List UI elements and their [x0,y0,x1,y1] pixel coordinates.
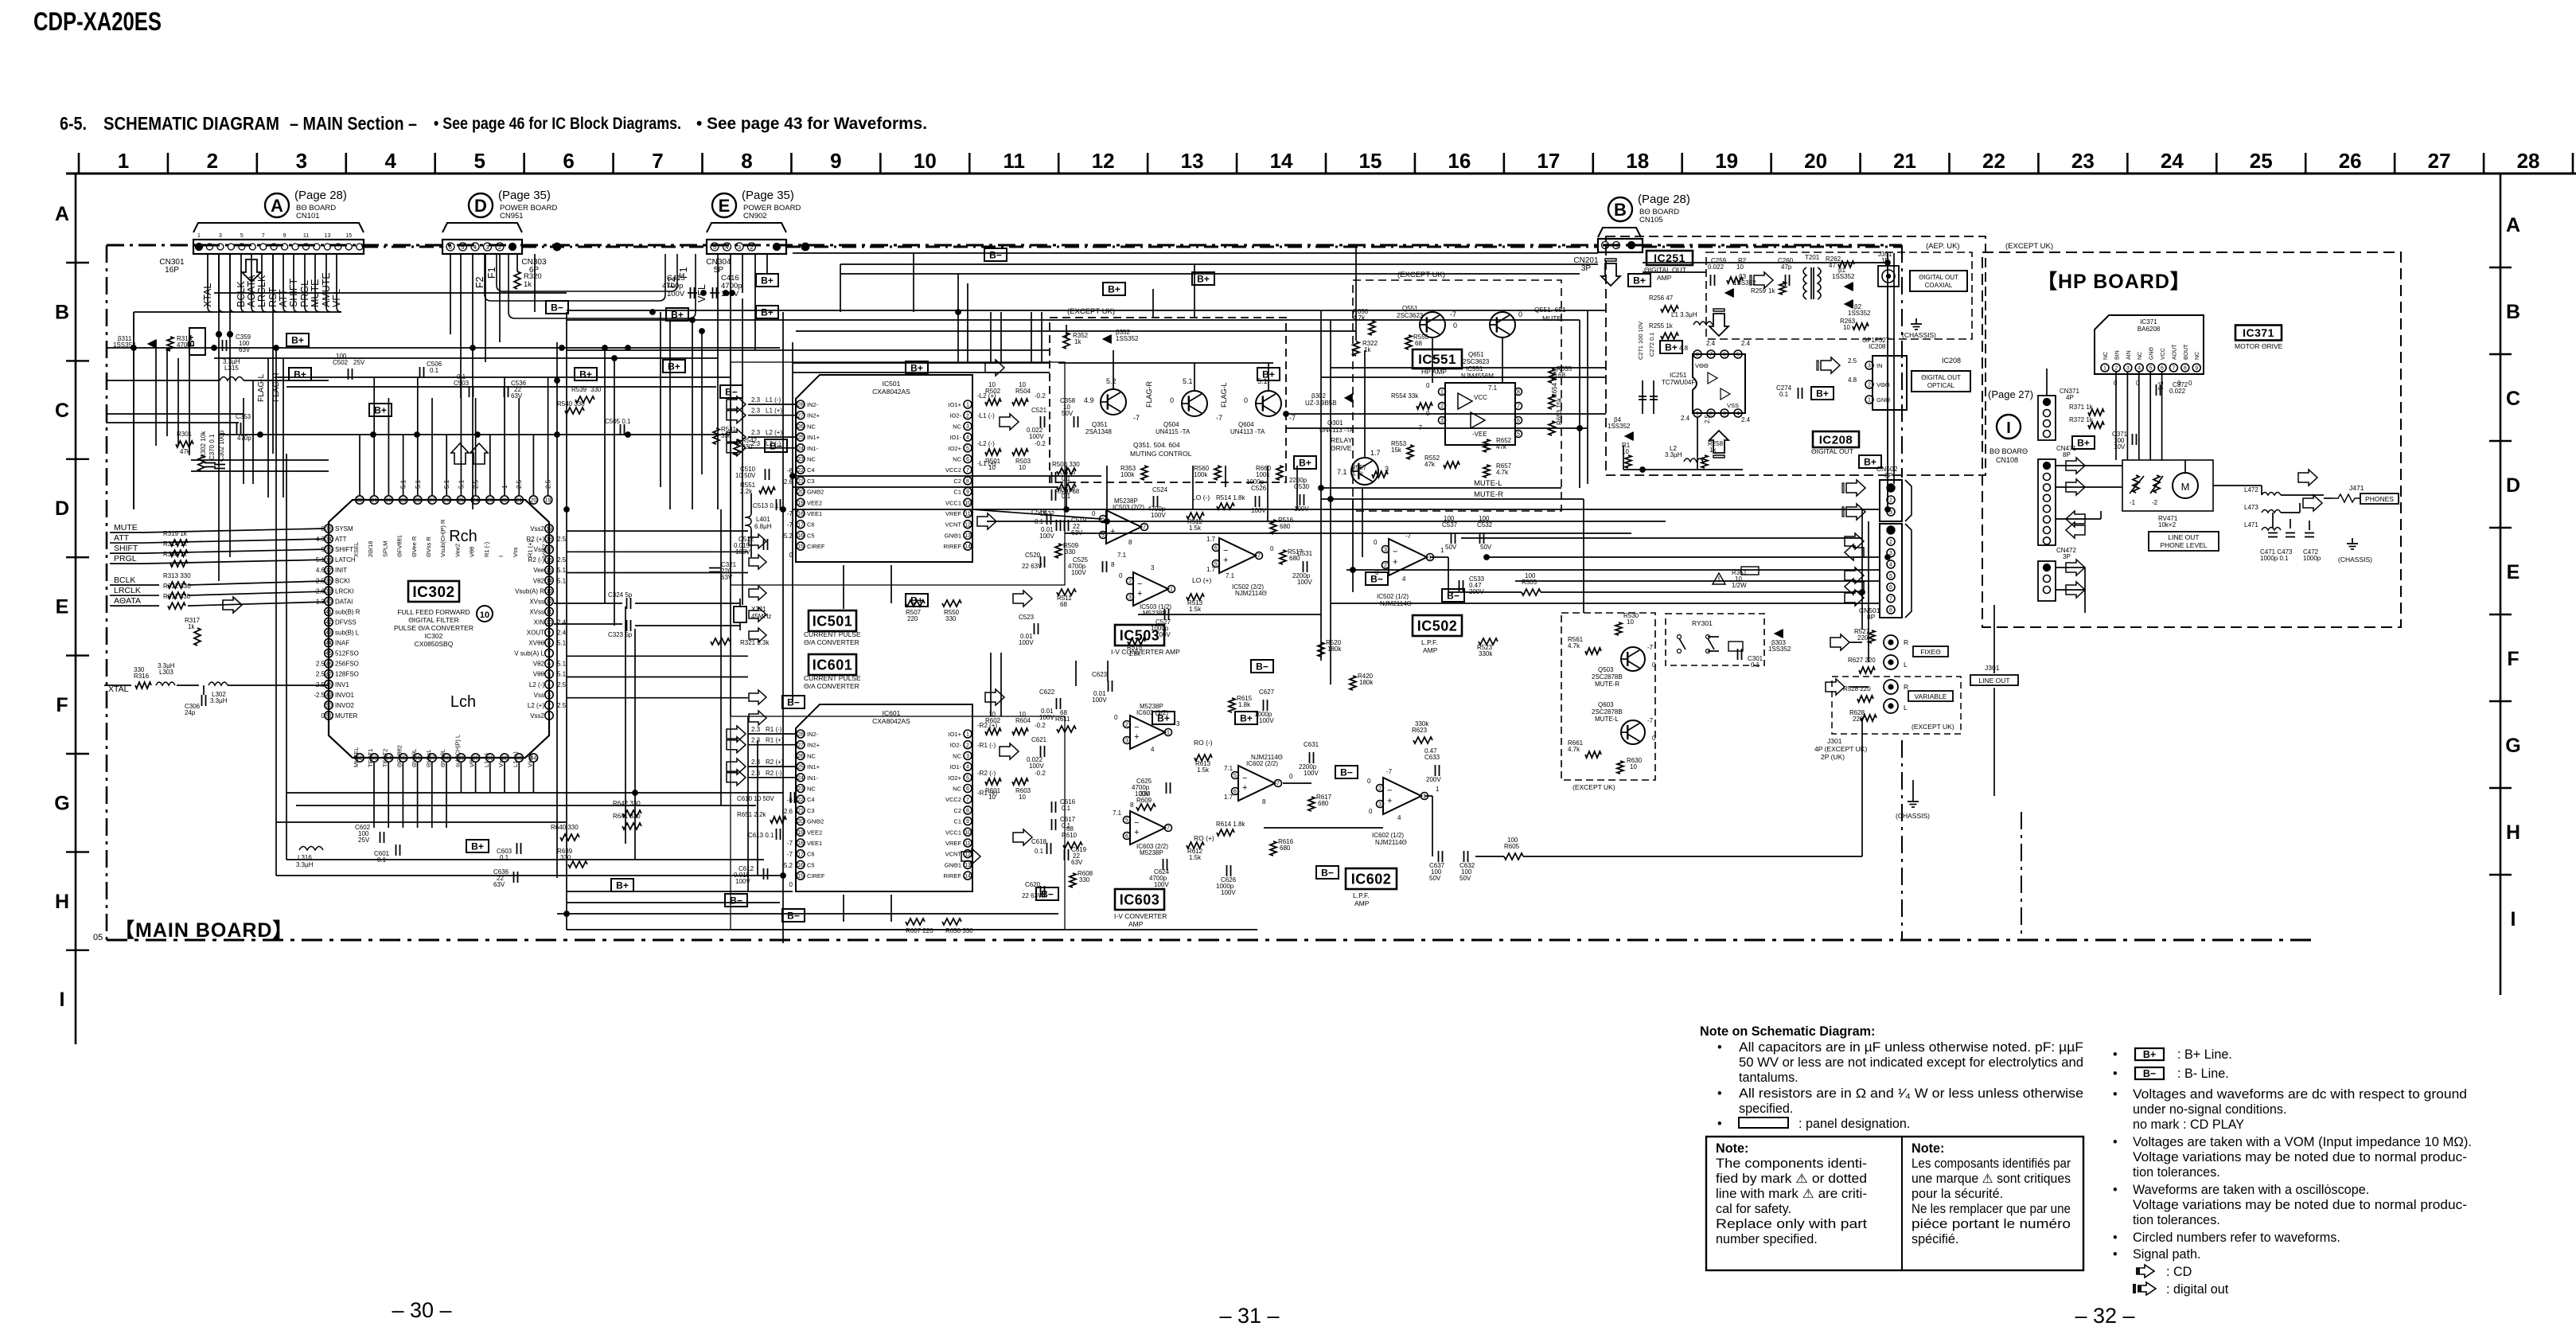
IC302 label box [408,581,459,602]
svg-text:R316: R316 [134,673,150,680]
junction dots under connector A [216,332,221,337]
svg-text:B+: B+ [471,841,484,852]
connector ref circle A [265,193,289,217]
svg-text:6: 6 [1889,585,1892,591]
IC601 output resistors R602 R604 [985,728,1001,735]
svg-text:1000p: 1000p [1246,478,1265,486]
svg-text:12: 12 [965,852,971,857]
svg-text:piéce portant le numéro: piéce portant le numéro [1912,1217,2071,1231]
svg-text:-R2 (+): -R2 (+) [977,722,997,729]
resistor R353 100k [1141,466,1148,480]
wires inside muting box [1066,325,1067,337]
svg-text:6: 6 [1125,834,1128,840]
svg-text:B−: B− [1370,574,1383,585]
svg-text:47k: 47k [1496,443,1507,451]
svg-text:25: 25 [797,435,804,441]
svg-text:tion tolerances.: tion tolerances. [2133,1213,2220,1227]
svg-text:27: 27 [797,743,804,748]
svg-text:M5238P: M5238P [1140,849,1163,856]
svg-text:6: 6 [1214,546,1218,552]
transistor Q504 UN4115-TA [1182,391,1207,416]
svg-text:14: 14 [546,579,552,584]
signal arrow up from IC251 [1709,431,1728,458]
svg-text:VCNT: VCNT [945,851,962,858]
svg-text:5.1: 5.1 [458,479,465,489]
svg-text:Θ/A CONVERTER: Θ/A CONVERTER [804,682,859,690]
svg-text:B+: B+ [2077,438,2090,449]
svg-text:tion tolerances.: tion tolerances. [2133,1165,2220,1180]
wire horizontals to CN501 mid [1331,603,1880,604]
svg-text:2.4: 2.4 [1706,340,1716,347]
svg-text:IC602 (2/2): IC602 (2/2) [1246,760,1278,767]
svg-text:5.1: 5.1 [557,671,567,678]
svg-text:LRCLK: LRCLK [114,586,141,595]
svg-text:NJM2114Θ: NJM2114Θ [1235,590,1267,597]
connector D wires with F2 F1 VFL labels [485,254,665,301]
svg-text:IO1-: IO1- [949,434,961,441]
op-amp IC502 1/2 [1389,539,1427,575]
svg-text:2SC2878B: 2SC2878B [1592,673,1623,681]
capacitor C502 100 25V [348,369,349,380]
svg-text:−: − [1223,546,1228,556]
resistor R352 1k [1063,333,1070,349]
svg-text:128FSO: 128FSO [335,671,359,678]
svg-text:5: 5 [966,446,969,451]
svg-text:6: 6 [548,661,551,667]
svg-text:0.1: 0.1 [1035,848,1044,855]
wire input L1 (+) [748,415,796,416]
svg-text:IC551: IC551 [1418,352,1456,367]
svg-text:17: 17 [797,852,804,857]
resistor R616 680 [1270,841,1276,856]
svg-text:Vθθ: Vθθ [533,671,545,678]
svg-text:(Page 27): (Page 27) [1988,388,2033,400]
svg-text:68: 68 [1415,340,1422,347]
svg-text:F1: F1 [486,267,497,279]
svg-text:0: 0 [1289,773,1293,780]
svg-text:Vθθ: Vθθ [469,757,476,767]
arrows at jacks [1830,634,1849,650]
svg-text:sub(B) R: sub(B) R [335,608,360,615]
svg-text:24p: 24p [185,709,196,716]
svg-text:3P: 3P [1884,471,1893,479]
svg-text:24: 24 [473,498,479,504]
svg-text:C5: C5 [807,532,815,539]
wire horizontal y520 left cluster [106,413,156,415]
svg-text:8: 8 [1696,353,1699,358]
wire input R2 (+) [748,766,796,767]
svg-text:100V: 100V [1251,507,1266,514]
resistor R420 180k [1350,676,1356,690]
wire MUTE bus drops [1352,499,1354,592]
svg-text:VREF: VREF [945,840,961,847]
svg-text:R651 2.2k: R651 2.2k [737,811,766,818]
svg-text:-0.2: -0.2 [1035,440,1046,447]
B+ label above relay drive [1257,368,1280,380]
svg-text:23: 23 [2071,149,2095,173]
svg-text:5.1: 5.1 [557,661,567,668]
svg-text:B+: B+ [294,369,306,380]
svg-text:2Θ/16: 2Θ/16 [367,541,374,557]
wire bus pair y474 y486 [275,376,731,378]
svg-text:I-V CONVERTER AMP: I-V CONVERTER AMP [1111,648,1180,656]
waveform circle 10 [477,606,493,622]
svg-text:CURRENT PULSE: CURRENT PULSE [804,630,861,638]
svg-text:C1: C1 [953,818,961,825]
signal arrow input L1 (-) [727,396,746,412]
svg-text:−: − [1387,786,1392,796]
resistor R321 3.3k [711,638,730,645]
svg-text:C621: C621 [1031,736,1047,743]
svg-text:VCNT: VCNT [945,521,962,529]
svg-text:RO (-): RO (-) [1194,739,1213,747]
svg-text:GNΘ1: GNΘ1 [945,532,961,539]
svg-text:B+: B+ [1299,458,1311,469]
wire VFL from D to E [509,254,696,318]
svg-text:330: 330 [945,615,957,622]
svg-text:200V: 200V [1426,776,1441,783]
svg-text:16: 16 [797,863,804,868]
svg-text:C610 10 50V: C610 10 50V [737,795,774,802]
svg-text:NC: NC [807,456,816,463]
capacitor C302 100p vertical [214,464,225,466]
svg-text:MOTOR ΘRIVE: MOTOR ΘRIVE [2235,342,2283,350]
wire horizontal left column [156,413,244,415]
svg-text:43: 43 [325,630,332,636]
svg-text:50V: 50V [1429,875,1441,882]
svg-text:-7: -7 [787,840,793,847]
chassis ground below jacks [1912,796,1914,802]
svg-text:SCHEMATIC DIAGRAM: SCHEMATIC DIAGRAM [103,113,279,134]
svg-text:PULSE Θ/A CONVERTER: PULSE Θ/A CONVERTER [394,624,474,632]
wires digital out rails [1623,446,1624,470]
capacitors C616 C617 0.1 [1051,802,1053,813]
svg-text:63V: 63V [511,392,523,400]
svg-text:8: 8 [1130,802,1134,809]
capacitor C627 1000p 100V [1263,700,1265,711]
svg-text:10: 10 [546,620,552,626]
svg-text:GNΘ: GNΘ [2149,347,2155,361]
svg-text:sub(B) L: sub(B) L [335,630,360,637]
svg-text:0.1: 0.1 [430,367,439,374]
svg-text:M: M [2181,481,2190,493]
svg-text:5.1: 5.1 [415,479,422,489]
svg-text:VCC: VCC [1474,394,1487,401]
resistor R607 220 [906,919,925,925]
chassis ground HP board [2352,538,2353,544]
svg-text:F: F [2507,648,2519,670]
IC371 label box [2235,326,2282,341]
svg-text:GNΘ2: GNΘ2 [807,489,824,496]
svg-text:R611: R611 [1055,716,1070,723]
svg-text:IC501: IC501 [813,613,853,629]
resistor R555 68 [1405,335,1412,349]
svg-text:28: 28 [2517,149,2540,173]
B+ label near IC208 [1811,387,1834,400]
svg-text:1k: 1k [188,623,195,630]
svg-text:IC551: IC551 [1466,365,1483,373]
svg-text:B−: B− [1321,868,1334,879]
svg-text:BOUT: BOUT [2184,344,2189,360]
junction dot right of D [554,244,561,251]
svg-text:19: 19 [545,498,551,504]
svg-text:1000p 0.1: 1000p 0.1 [2260,555,2289,562]
column ruler [66,173,2576,175]
capacitor C353 470p [236,423,238,434]
line out phone level label box [2149,532,2219,551]
svg-text:B+: B+ [761,275,774,287]
svg-text:+: + [1242,783,1247,793]
AEP UK dashed box [1706,252,1972,339]
svg-text:14: 14 [965,874,971,880]
svg-text:B: B [1614,200,1627,220]
svg-text:C524: C524 [1152,486,1168,493]
svg-text:R306 1k: R306 1k [163,551,188,558]
B+ label left of E [666,308,688,321]
svg-text:2.4: 2.4 [1741,340,1751,347]
B- label row C [720,385,742,398]
svg-text:4.7k: 4.7k [1496,469,1509,476]
svg-text:2: 2 [1384,564,1387,569]
svg-text:23: 23 [797,786,804,792]
svg-text:CURRENT PULSE: CURRENT PULSE [804,674,861,682]
svg-text:IO1+: IO1+ [949,401,962,408]
svg-text:2: 2 [498,244,501,251]
svg-text:1: 1 [1696,412,1699,417]
svg-text:IC502: IC502 [1417,618,1458,634]
wire vertical x672 under D [534,254,536,312]
svg-text:R505: R505 [1522,579,1537,586]
svg-text:L.P.F.: L.P.F. [1353,891,1370,899]
svg-text:3: 3 [2126,366,2130,372]
svg-text:2.3: 2.3 [751,737,761,744]
svg-text:3P: 3P [2063,553,2071,560]
warning resistor R351 10 1/2W [1713,573,1725,584]
svg-text:une marque ⚠ sont critiques: une marque ⚠ sont critiques [1912,1172,2071,1186]
resistor R605 100 [1504,853,1523,860]
resistor R609 330 [1136,804,1155,810]
svg-text:10: 10 [965,830,971,836]
capacitor C532 100 50V [1479,532,1481,544]
svg-text:3.3µH: 3.3µH [223,358,240,365]
capacitor C523 0.01 100V [1034,623,1035,634]
svg-text:8: 8 [1111,561,1115,568]
svg-text:16P: 16P [165,266,179,275]
svg-text:!: ! [1718,575,1721,584]
resistor R660 100k [1276,466,1283,480]
svg-text:19: 19 [797,501,804,506]
svg-text:IC502 (1/2): IC502 (1/2) [1377,593,1409,600]
svg-text:1SS352: 1SS352 [1848,310,1871,317]
svg-text:NC: NC [807,786,816,793]
svg-text:CDP-XA20ES: CDP-XA20ES [33,7,162,36]
signal path digital out arrow legend [2133,1282,2156,1295]
svg-text:AMP: AMP [1354,899,1370,907]
svg-text:15: 15 [1359,149,1382,173]
resistor R610 68 [1063,842,1082,848]
capacitor C622 0.01 100V [1056,698,1058,709]
svg-text:8: 8 [2184,366,2187,372]
signal arrow down into IC251 [1709,309,1728,336]
svg-text:1/2W: 1/2W [1732,582,1747,589]
signal arrow input L1 (+) [727,408,746,423]
resistor R540 330 [565,408,584,414]
svg-text:R1 (+): R1 (+) [526,540,533,557]
svg-text:IC601: IC601 [813,657,853,673]
op-amp IC502 2/2 [1219,538,1256,573]
IC208 optical chip [1873,356,1907,410]
svg-text:7: 7 [1709,353,1713,358]
svg-text:Q604: Q604 [1238,421,1254,428]
svg-text:15: 15 [797,874,804,880]
svg-text:(EXCEPT UK): (EXCEPT UK) [1067,307,1115,316]
svg-text:Q603: Q603 [1598,701,1614,708]
svg-text:-2: -2 [2152,499,2158,506]
svg-text:10: 10 [914,149,937,173]
svg-text:6: 6 [966,786,969,792]
wire input R2 (-) [748,777,796,778]
svg-text:【MAIN BOARD】: 【MAIN BOARD】 [115,919,294,942]
svg-text:2: 2 [2114,366,2118,372]
svg-text:3: 3 [1128,595,1132,601]
bus wires top across [567,310,1606,311]
capacitor C631 2200p 100V [1309,752,1311,763]
svg-text:C6: C6 [807,521,815,529]
svg-text:25: 25 [2250,149,2273,173]
svg-text:100V: 100V [1039,714,1054,721]
svg-text:R554 33k: R554 33k [1391,392,1419,400]
svg-text:10: 10 [1019,464,1026,471]
B- box mid [546,301,568,314]
arrows to phones jack [2298,470,2317,486]
svg-text:Note:: Note: [1912,1141,1944,1156]
resistor R615 1.8k [1229,698,1235,712]
svg-text:number specified.: number specified. [1716,1232,1818,1246]
svg-text:4P (EXCEPT UK): 4P (EXCEPT UK) [1814,745,1867,753]
HP board wires [2056,465,2122,466]
svg-text:B+: B+ [1262,369,1275,380]
svg-text:13: 13 [546,589,552,595]
vertical wires from IC302 top pins [359,435,360,495]
svg-text:R: R [1904,683,1908,691]
svg-text:•: • [2113,1247,2118,1262]
svg-text:L2 (-): L2 (-) [529,681,544,688]
svg-text:2.5: 2.5 [557,556,567,564]
svg-text:10: 10 [480,610,489,620]
svg-text:-2.5: -2.5 [314,692,325,699]
svg-text:•: • [2113,1183,2118,1197]
svg-text:50V: 50V [1480,544,1492,551]
svg-text:10: 10 [1843,324,1850,331]
svg-text:– 32 –: – 32 – [2075,1304,2134,1328]
connector ref circle D [469,193,493,217]
svg-text:CXA8042AS: CXA8042AS [872,717,910,725]
svg-text:21: 21 [516,498,522,504]
resistor R614 1.8k [1217,829,1234,836]
svg-text:2.5: 2.5 [516,479,523,489]
svg-text:(Page 28): (Page 28) [294,189,347,202]
bus wires mid left [793,509,1880,510]
IC371 chip [2095,315,2204,374]
svg-text:Voltages and waveforms are dc: Voltages and waveforms are dc with respe… [2133,1087,2467,1102]
svg-text:•: • [2113,1047,2118,1062]
RV471 potentiometers [2133,475,2139,493]
svg-text:R609: R609 [1136,797,1152,804]
svg-text:-R2 (-): -R2 (-) [977,770,996,777]
IC208 label box big [1813,431,1859,447]
svg-text:E: E [719,196,731,216]
IC601 right pins [964,730,972,738]
wire input L1 (-) [748,404,796,405]
svg-text:2.4: 2.4 [557,630,567,637]
resistor R550 330 [942,600,961,607]
svg-text:13: 13 [965,533,971,539]
svg-text:+: + [1110,527,1115,536]
IC302 top pin row [356,496,364,504]
svg-text:BCLK: BCLK [236,281,247,307]
svg-text:B+: B+ [2143,1049,2156,1060]
svg-text:2: 2 [1125,723,1128,728]
svg-text:NJM2114Θ: NJM2114Θ [1251,754,1283,761]
wires from IC302 right pins to arrows [567,530,748,532]
svg-text:3: 3 [1440,419,1444,424]
svg-text:15: 15 [345,233,352,239]
svg-text:Vθ2: Vθ2 [533,661,545,668]
svg-text:1k: 1k [524,280,532,289]
svg-text:AOUT: AOUT [2172,344,2177,360]
svg-text:R540 330: R540 330 [557,400,585,408]
svg-text:INVO2: INVO2 [335,702,355,709]
svg-text:3.3µH: 3.3µH [158,662,175,669]
svg-text:R640 330: R640 330 [551,824,579,831]
IC501 outer frame wires [731,362,1065,585]
svg-text:Signal path.: Signal path. [2133,1247,2201,1262]
svg-text:(CHASSIS): (CHASSIS) [1896,812,1930,820]
wire bus from connector A to IC302 left [133,312,134,509]
B- label below IC601 [782,909,805,922]
svg-text:100V: 100V [1221,889,1236,896]
svg-text:4.6: 4.6 [316,567,325,574]
svg-text:5: 5 [461,244,464,251]
svg-text:R604: R604 [1015,717,1031,724]
svg-text:4: 4 [1889,563,1892,568]
svg-text:E: E [2507,561,2520,583]
svg-text:2SC3623: 2SC3623 [1397,312,1424,319]
svg-text:R1 (-): R1 (-) [766,726,782,733]
svg-text:IN1-: IN1- [807,445,819,452]
svg-text:IC208: IC208 [1942,357,1961,365]
svg-text:L303: L303 [159,669,173,676]
svg-text:(AEP. UK): (AEP. UK) [1926,242,1960,251]
wire vertical crystal to bottom bus [634,629,636,860]
svg-text:no mark : CD PLAY: no mark : CD PLAY [2133,1118,2244,1132]
resistor R515 1.8k [1128,638,1145,645]
resistor R509 330 [1055,544,1062,558]
IC601 chip body [796,704,972,891]
svg-text:NJM4556M: NJM4556M [1461,373,1494,380]
svg-text:XOUT: XOUT [527,630,544,637]
svg-text:3P: 3P [1581,264,1592,273]
svg-text:0: 0 [1652,735,1656,742]
svg-text:2: 2 [1128,579,1132,585]
svg-text:IO2-: IO2- [949,742,961,749]
svg-text:L401: L401 [756,516,770,523]
svg-text:ΘFVθθ1: ΘFVθθ1 [396,535,403,557]
svg-text:7: 7 [1889,596,1892,602]
svg-text:LRCLK: LRCLK [256,275,267,307]
svg-text:VARIABLE: VARIABLE [1915,692,1947,700]
svg-text:+: + [1387,796,1392,805]
